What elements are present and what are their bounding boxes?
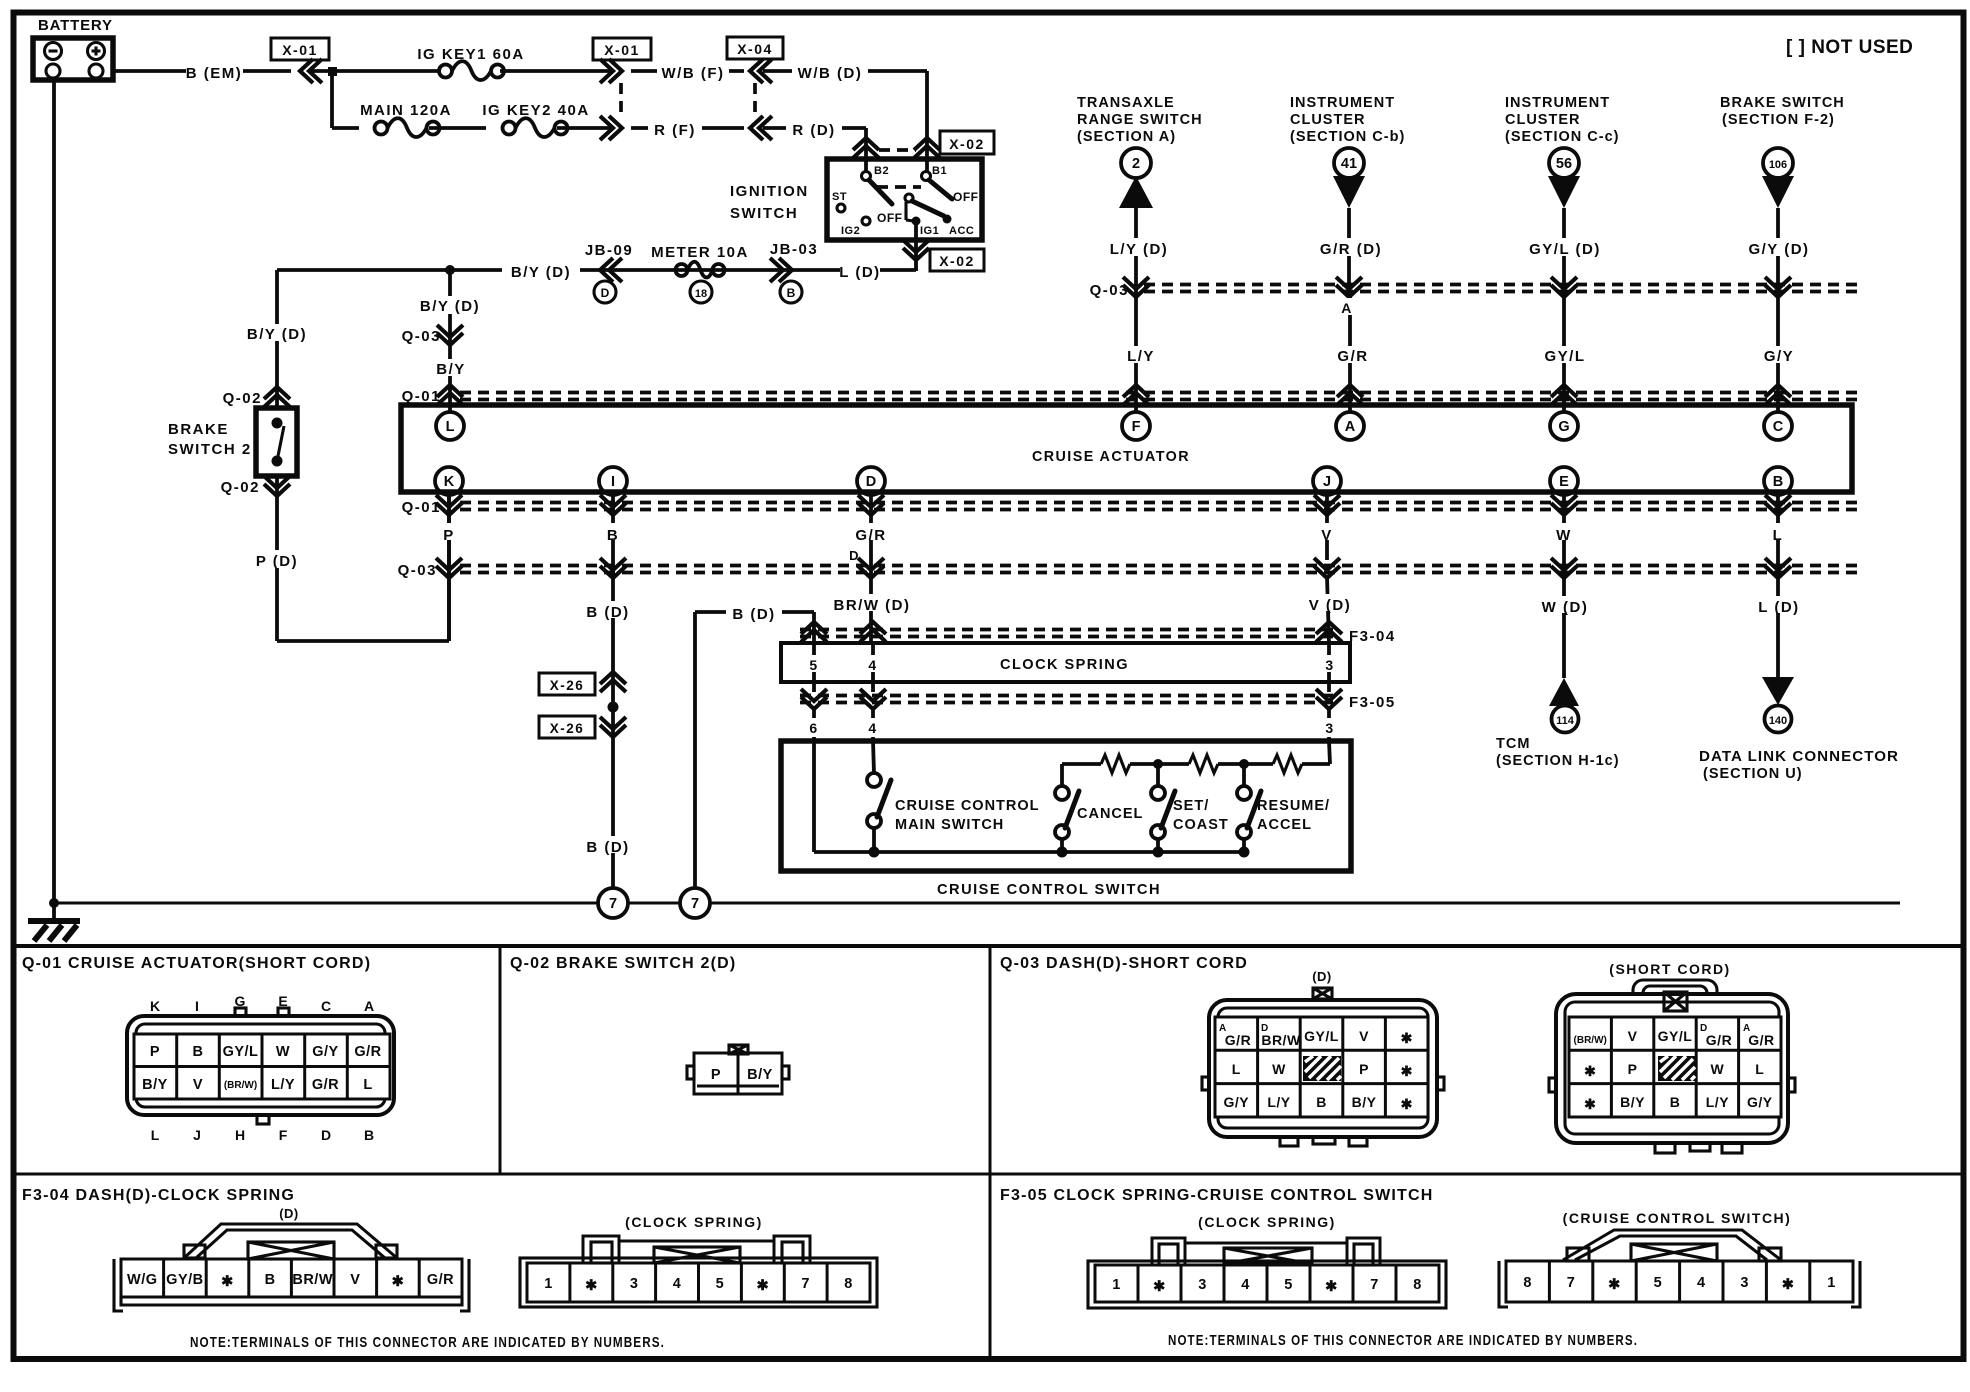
svg-text:(BR/W): (BR/W) <box>224 1080 257 1091</box>
svg-text:X-02: X-02 <box>939 253 975 269</box>
svg-text:L: L <box>1232 1061 1241 1077</box>
svg-text:1: 1 <box>544 1276 553 1292</box>
svg-text:X-01: X-01 <box>604 42 640 58</box>
svg-text:G/R: G/R <box>427 1272 454 1288</box>
svg-text:P: P <box>1628 1061 1638 1077</box>
svg-text:F3-04 DASH(D)-CLOCK SPRING: F3-04 DASH(D)-CLOCK SPRING <box>22 1187 295 1204</box>
svg-text:✱: ✱ <box>221 1274 234 1290</box>
svg-text:MAIN 120A: MAIN 120A <box>360 102 452 119</box>
svg-text:8: 8 <box>1523 1275 1532 1291</box>
svg-text:V: V <box>193 1077 203 1093</box>
svg-text:G/Y: G/Y <box>1764 348 1794 365</box>
svg-text:BATTERY: BATTERY <box>38 17 113 34</box>
svg-text:BR/W: BR/W <box>1261 1032 1301 1048</box>
svg-text:B/Y (D): B/Y (D) <box>511 264 571 281</box>
svg-text:IGNITION: IGNITION <box>730 183 809 200</box>
svg-text:18: 18 <box>695 288 707 300</box>
svg-text:RANGE SWITCH: RANGE SWITCH <box>1077 112 1203 128</box>
svg-text:7: 7 <box>801 1276 810 1292</box>
svg-text:(SECTION F-2): (SECTION F-2) <box>1722 112 1835 128</box>
svg-text:BR/W (D): BR/W (D) <box>834 597 911 614</box>
svg-text:CRUISE CONTROL SWITCH: CRUISE CONTROL SWITCH <box>937 881 1161 898</box>
svg-text:F3-04: F3-04 <box>1349 628 1396 645</box>
svg-text:X-26: X-26 <box>550 721 585 736</box>
svg-text:3: 3 <box>1740 1275 1749 1291</box>
svg-text:W: W <box>1272 1061 1286 1077</box>
svg-text:B: B <box>1316 1094 1327 1110</box>
svg-text:OFF: OFF <box>953 190 979 204</box>
svg-text:GY/B: GY/B <box>166 1272 203 1288</box>
svg-text:A: A <box>1219 1023 1227 1034</box>
svg-text:✱: ✱ <box>1782 1277 1795 1293</box>
svg-text:(SECTION U): (SECTION U) <box>1703 766 1803 782</box>
svg-text:V: V <box>1628 1028 1638 1044</box>
svg-text:Q-03: Q-03 <box>398 562 437 579</box>
svg-text:G/R: G/R <box>855 527 886 544</box>
svg-text:B/Y: B/Y <box>747 1067 773 1083</box>
svg-text:W/G: W/G <box>127 1272 158 1288</box>
svg-text:(SHORT CORD): (SHORT CORD) <box>1609 961 1730 977</box>
svg-text:4: 4 <box>1241 1277 1250 1293</box>
svg-text:140: 140 <box>1769 715 1787 727</box>
svg-text:TRANSAXLE: TRANSAXLE <box>1077 95 1175 111</box>
svg-text:B/Y (D): B/Y (D) <box>247 326 307 343</box>
svg-text:(SECTION A): (SECTION A) <box>1077 129 1176 145</box>
svg-text:ACCEL: ACCEL <box>1257 817 1312 833</box>
svg-text:W: W <box>1711 1061 1725 1077</box>
svg-text:IG2: IG2 <box>841 225 860 237</box>
svg-text:✱: ✱ <box>392 1274 405 1290</box>
svg-text:(CRUISE CONTROL SWITCH): (CRUISE CONTROL SWITCH) <box>1563 1210 1792 1226</box>
svg-text:P: P <box>711 1067 721 1083</box>
svg-text:B: B <box>607 527 619 544</box>
svg-text:(SECTION C-b): (SECTION C-b) <box>1290 129 1405 145</box>
svg-text:L: L <box>363 1077 372 1093</box>
svg-text:I: I <box>611 474 615 490</box>
svg-text:K: K <box>150 998 160 1014</box>
svg-text:RESUME/: RESUME/ <box>1257 798 1330 814</box>
svg-text:8: 8 <box>1413 1277 1422 1293</box>
svg-text:GY/L: GY/L <box>1544 348 1585 365</box>
svg-text:B (D): B (D) <box>732 606 775 623</box>
svg-text:Q-03 DASH(D)-SHORT CORD: Q-03 DASH(D)-SHORT CORD <box>1000 955 1248 972</box>
svg-text:B: B <box>787 286 796 300</box>
svg-text:COAST: COAST <box>1173 817 1229 833</box>
svg-text:INSTRUMENT: INSTRUMENT <box>1505 95 1610 111</box>
svg-text:G/R: G/R <box>1748 1032 1774 1048</box>
svg-text:CRUISE CONTROL: CRUISE CONTROL <box>895 798 1040 814</box>
svg-text:CANCEL: CANCEL <box>1077 806 1143 822</box>
svg-text:IG KEY2 40A: IG KEY2 40A <box>482 102 589 119</box>
svg-text:G/Y (D): G/Y (D) <box>1748 241 1809 258</box>
svg-text:METER 10A: METER 10A <box>651 244 749 261</box>
svg-text:5: 5 <box>716 1276 725 1292</box>
svg-text:GY/L: GY/L <box>223 1044 259 1060</box>
svg-text:7: 7 <box>691 896 699 912</box>
svg-text:114: 114 <box>1556 715 1575 727</box>
svg-text:L: L <box>1755 1061 1764 1077</box>
svg-text:D: D <box>1700 1023 1708 1034</box>
svg-text:JB-03: JB-03 <box>770 241 818 258</box>
svg-text:BRAKE: BRAKE <box>168 421 229 438</box>
svg-text:B: B <box>364 1127 374 1143</box>
svg-text:A: A <box>364 998 374 1014</box>
svg-text:BR/W: BR/W <box>292 1272 333 1288</box>
svg-text:B/Y: B/Y <box>1352 1094 1377 1110</box>
svg-text:L/Y (D): L/Y (D) <box>1110 241 1169 258</box>
svg-text:3: 3 <box>1325 720 1334 736</box>
svg-text:L/Y: L/Y <box>1706 1094 1729 1110</box>
svg-text:GY/L (D): GY/L (D) <box>1529 241 1601 258</box>
svg-text:(CLOCK SPRING): (CLOCK SPRING) <box>625 1214 763 1230</box>
svg-text:(D): (D) <box>279 1206 299 1221</box>
svg-text:B: B <box>193 1044 204 1060</box>
svg-text:A: A <box>1341 300 1353 316</box>
svg-text:G/R: G/R <box>1337 348 1368 365</box>
svg-text:H: H <box>235 1127 245 1143</box>
svg-text:B (D): B (D) <box>586 839 629 856</box>
svg-text:TCM: TCM <box>1496 736 1530 752</box>
svg-text:B1: B1 <box>932 165 947 177</box>
svg-text:41: 41 <box>1341 156 1357 172</box>
svg-text:(BR/W): (BR/W) <box>1574 1035 1607 1046</box>
svg-text:F: F <box>279 1127 288 1143</box>
svg-text:✱: ✱ <box>585 1278 598 1294</box>
svg-text:[ ] NOT USED: [ ] NOT USED <box>1786 37 1913 58</box>
svg-text:L/Y: L/Y <box>1267 1094 1290 1110</box>
svg-text:X-04: X-04 <box>737 41 773 57</box>
svg-text:✱: ✱ <box>756 1278 769 1294</box>
svg-text:F3-05 CLOCK SPRING-CRUISE CONT: F3-05 CLOCK SPRING-CRUISE CONTROL SWITCH <box>1000 1187 1434 1204</box>
svg-text:SWITCH 2: SWITCH 2 <box>168 441 252 458</box>
svg-text:W/B (F): W/B (F) <box>662 65 725 82</box>
svg-text:4: 4 <box>868 657 877 673</box>
svg-text:P: P <box>443 527 455 544</box>
svg-text:P: P <box>1359 1061 1369 1077</box>
svg-text:B (D): B (D) <box>586 604 629 621</box>
svg-text:SET/: SET/ <box>1173 798 1209 814</box>
svg-text:W/B (D): W/B (D) <box>798 65 863 82</box>
svg-text:✱: ✱ <box>1608 1277 1621 1293</box>
svg-text:Q-01: Q-01 <box>402 499 441 516</box>
svg-text:SWITCH: SWITCH <box>730 205 798 222</box>
svg-text:D: D <box>866 474 876 490</box>
svg-text:1: 1 <box>1112 1277 1121 1293</box>
svg-text:IG KEY1 60A: IG KEY1 60A <box>417 46 524 63</box>
svg-text:✱: ✱ <box>1401 1096 1413 1112</box>
svg-text:CLOCK SPRING: CLOCK SPRING <box>1000 656 1129 673</box>
svg-text:B/Y: B/Y <box>142 1077 168 1093</box>
svg-text:L: L <box>446 419 455 435</box>
svg-text:F: F <box>1132 419 1141 435</box>
svg-text:R (F): R (F) <box>654 122 696 139</box>
svg-text:✱: ✱ <box>1401 1030 1413 1046</box>
svg-text:2: 2 <box>1132 156 1140 172</box>
svg-text:Q-01 CRUISE ACTUATOR(SHORT COR: Q-01 CRUISE ACTUATOR(SHORT CORD) <box>22 955 371 972</box>
svg-text:G/R (D): G/R (D) <box>1320 241 1382 258</box>
svg-text:MAIN SWITCH: MAIN SWITCH <box>895 817 1004 833</box>
svg-text:8: 8 <box>844 1276 853 1292</box>
svg-text:✱: ✱ <box>1153 1279 1166 1295</box>
svg-text:(D): (D) <box>1312 969 1332 984</box>
svg-text:L: L <box>151 1127 160 1143</box>
svg-text:4: 4 <box>868 720 877 736</box>
svg-text:NOTE:TERMINALS OF THIS CONNECT: NOTE:TERMINALS OF THIS CONNECTOR ARE IND… <box>190 1334 665 1351</box>
svg-text:✱: ✱ <box>1325 1279 1338 1295</box>
svg-text:(CLOCK SPRING): (CLOCK SPRING) <box>1198 1214 1336 1230</box>
svg-text:G/R: G/R <box>1225 1032 1251 1048</box>
svg-text:GY/L: GY/L <box>1658 1028 1693 1044</box>
svg-text:Q-02: Q-02 <box>223 390 262 407</box>
svg-text:V: V <box>1359 1028 1369 1044</box>
svg-text:✱: ✱ <box>1401 1063 1413 1079</box>
svg-text:G/R: G/R <box>312 1077 339 1093</box>
svg-text:X-01: X-01 <box>282 42 318 58</box>
svg-text:INSTRUMENT: INSTRUMENT <box>1290 95 1395 111</box>
svg-text:7: 7 <box>609 896 617 912</box>
svg-text:L/Y: L/Y <box>1127 348 1155 365</box>
svg-text:3: 3 <box>630 1276 639 1292</box>
svg-text:Q-03: Q-03 <box>1090 282 1129 299</box>
svg-text:NOTE:TERMINALS OF THIS CONNECT: NOTE:TERMINALS OF THIS CONNECTOR ARE IND… <box>1168 1332 1638 1349</box>
svg-text:G/R: G/R <box>1706 1032 1732 1048</box>
svg-text:D: D <box>601 286 610 300</box>
svg-text:4: 4 <box>673 1276 682 1292</box>
svg-text:F3-05: F3-05 <box>1349 694 1396 711</box>
svg-text:B: B <box>1773 474 1783 490</box>
svg-text:CRUISE ACTUATOR: CRUISE ACTUATOR <box>1032 448 1190 465</box>
svg-text:✱: ✱ <box>1584 1063 1596 1079</box>
svg-text:C: C <box>1773 419 1784 435</box>
svg-text:B: B <box>265 1272 276 1288</box>
svg-text:G: G <box>1558 419 1569 435</box>
svg-text:4: 4 <box>1697 1275 1706 1291</box>
svg-text:5: 5 <box>1284 1277 1293 1293</box>
svg-text:BRAKE SWITCH: BRAKE SWITCH <box>1720 95 1845 111</box>
svg-text:GY/L: GY/L <box>1304 1028 1339 1044</box>
svg-text:L: L <box>1773 527 1784 544</box>
svg-text:D: D <box>321 1127 331 1143</box>
svg-text:D: D <box>1261 1023 1269 1034</box>
svg-text:6: 6 <box>809 720 818 736</box>
svg-text:B: B <box>1670 1094 1681 1110</box>
svg-text:I: I <box>195 998 199 1014</box>
svg-text:7: 7 <box>1370 1277 1379 1293</box>
svg-text:Q-02: Q-02 <box>221 479 260 496</box>
svg-text:V (D): V (D) <box>1309 597 1352 614</box>
svg-text:B (EM): B (EM) <box>186 65 243 82</box>
svg-text:W (D): W (D) <box>1542 599 1589 616</box>
svg-text:A: A <box>1345 419 1356 435</box>
svg-text:3: 3 <box>1198 1277 1207 1293</box>
svg-text:5: 5 <box>1654 1275 1663 1291</box>
svg-text:1: 1 <box>1827 1275 1836 1291</box>
svg-text:G/Y: G/Y <box>312 1044 338 1060</box>
svg-text:IG1: IG1 <box>920 225 939 237</box>
svg-text:CLUSTER: CLUSTER <box>1290 112 1365 128</box>
svg-text:J: J <box>1323 474 1331 490</box>
svg-text:JB-09: JB-09 <box>585 242 633 259</box>
svg-text:P: P <box>150 1044 160 1060</box>
svg-text:V: V <box>1321 527 1333 544</box>
svg-text:K: K <box>444 474 455 490</box>
svg-text:B2: B2 <box>874 165 889 177</box>
svg-text:OFF: OFF <box>877 211 903 225</box>
svg-text:C: C <box>321 998 331 1014</box>
svg-text:X-26: X-26 <box>550 678 585 693</box>
svg-text:Q-03: Q-03 <box>402 328 441 345</box>
svg-text:56: 56 <box>1556 156 1572 172</box>
svg-text:L (D): L (D) <box>1758 599 1799 616</box>
svg-text:B/Y (D): B/Y (D) <box>420 298 480 315</box>
svg-text:W: W <box>1556 527 1572 544</box>
svg-text:W: W <box>276 1044 290 1060</box>
svg-text:L (D): L (D) <box>839 264 880 281</box>
svg-text:DATA LINK CONNECTOR: DATA LINK CONNECTOR <box>1699 749 1899 765</box>
svg-text:5: 5 <box>809 657 818 673</box>
svg-text:D: D <box>849 548 860 563</box>
svg-text:Q-02 BRAKE SWITCH 2(D): Q-02 BRAKE SWITCH 2(D) <box>510 955 736 972</box>
svg-text:106: 106 <box>1769 159 1787 171</box>
svg-text:CLUSTER: CLUSTER <box>1505 112 1580 128</box>
svg-text:R (D): R (D) <box>792 122 835 139</box>
svg-text:G/Y: G/Y <box>1223 1094 1249 1110</box>
svg-text:B/Y: B/Y <box>436 361 466 378</box>
svg-text:V: V <box>350 1272 360 1288</box>
svg-text:B/Y: B/Y <box>1620 1094 1645 1110</box>
svg-text:G/Y: G/Y <box>1747 1094 1773 1110</box>
svg-text:J: J <box>193 1127 201 1143</box>
svg-text:(SECTION H-1c): (SECTION H-1c) <box>1496 753 1620 769</box>
svg-text:(SECTION C-c): (SECTION C-c) <box>1505 129 1620 145</box>
svg-text:3: 3 <box>1325 657 1334 673</box>
svg-text:L/Y: L/Y <box>271 1077 295 1093</box>
svg-text:✱: ✱ <box>1584 1096 1596 1112</box>
svg-text:G/R: G/R <box>354 1044 381 1060</box>
svg-text:E: E <box>1559 474 1569 490</box>
svg-text:P (D): P (D) <box>256 553 298 570</box>
svg-text:7: 7 <box>1567 1275 1576 1291</box>
svg-text:X-02: X-02 <box>949 136 985 152</box>
svg-text:ACC: ACC <box>949 225 974 237</box>
svg-text:A: A <box>1743 1023 1751 1034</box>
svg-text:ST: ST <box>832 191 847 203</box>
